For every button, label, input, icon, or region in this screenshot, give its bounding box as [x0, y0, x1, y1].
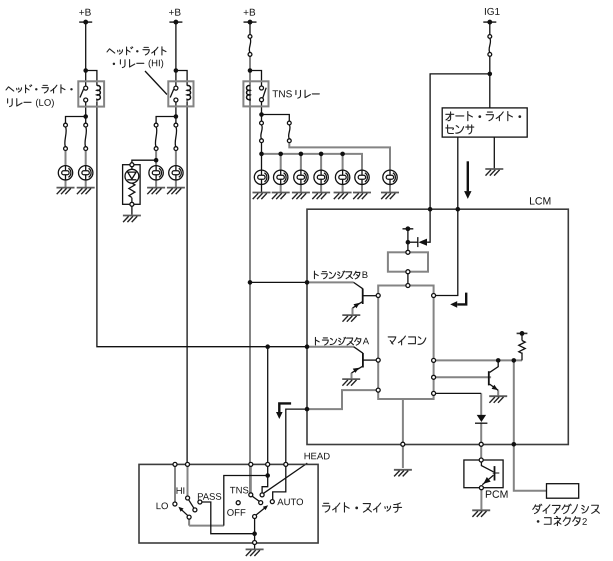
- svg-text:TNS: TNS: [272, 89, 292, 100]
- svg-text:LO: LO: [156, 501, 169, 512]
- svg-text:PASS: PASS: [197, 492, 222, 503]
- svg-text:2: 2: [582, 517, 587, 528]
- svg-text:TNS: TNS: [230, 485, 249, 496]
- svg-text:PCM: PCM: [485, 489, 508, 501]
- svg-text:+B: +B: [169, 8, 182, 19]
- svg-text:HEAD: HEAD: [304, 451, 331, 462]
- svg-text:(LO): (LO): [35, 98, 54, 109]
- svg-text:OFF: OFF: [227, 508, 246, 519]
- svg-text:(HI): (HI): [148, 58, 164, 69]
- svg-text:HI: HI: [176, 486, 186, 497]
- svg-text:+B: +B: [79, 8, 92, 19]
- svg-text:IG1: IG1: [484, 7, 501, 18]
- svg-text:A: A: [363, 336, 370, 347]
- svg-text:+B: +B: [243, 8, 256, 19]
- svg-text:B: B: [362, 270, 368, 281]
- svg-text:AUTO: AUTO: [277, 497, 303, 508]
- svg-text:LCM: LCM: [529, 196, 551, 208]
